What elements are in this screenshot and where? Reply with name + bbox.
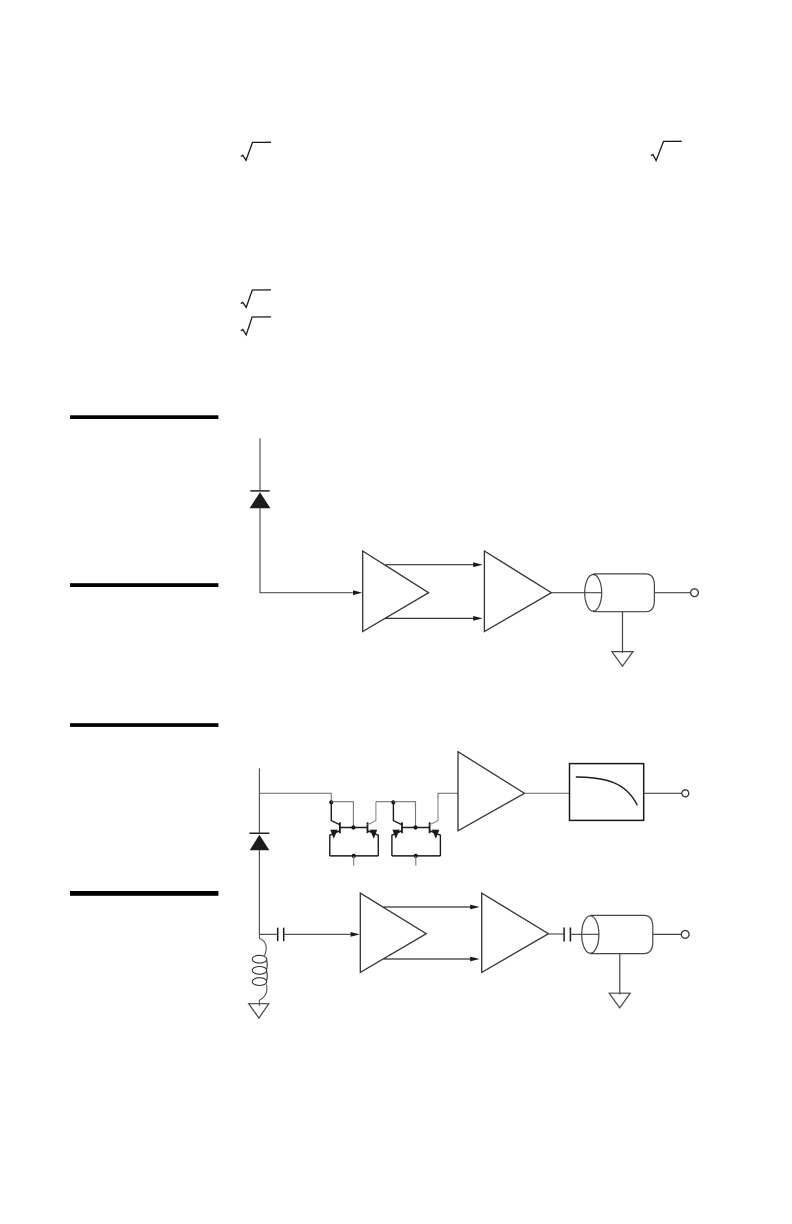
coax connector J2 face ellipse [582,916,599,953]
arrowhead lower into U2 [473,616,482,621]
arrowhead upper into U2 [473,562,482,567]
transistor Q1 emitter [330,831,340,856]
transistor Q3 emitter arrow [392,830,399,839]
emitter rail pair2 [392,855,441,857]
capacitor C2 plate 2 [569,928,571,942]
transistor Q3 emitter [392,831,402,856]
transistor Q3 base bar [401,822,403,833]
output terminal circle 2 [682,790,689,797]
arrowhead into amplifier U1 [353,590,362,595]
wire J2 to output terminal [653,933,682,935]
inductor L1 lead-in arc [259,934,266,955]
capacitor C2 plate 1 [563,928,565,942]
heading bar 1 [70,415,218,419]
transistor Q3 collector [393,803,402,825]
op-amp U2 [484,551,551,632]
node dot pair1 base [351,825,355,829]
wire filter to output terminal [644,792,682,794]
output terminal circle 1 [691,589,699,597]
node dot pair2 tail [414,854,418,858]
wire arrow U1 to U2 (lower) [386,617,474,619]
ground symbol 2 [249,1004,269,1018]
wire pair1 dot to base drop [331,802,353,828]
op-amp U3 [458,752,525,831]
radical sign 3 (mid left equation, upper) [241,290,271,308]
wire J1 to output terminal [654,592,690,594]
radical sign 1 (top left equation) [241,142,271,160]
ground symbol 1 [612,652,633,667]
transistor Q4 base bar [429,822,431,833]
photodiode D2 cathode bar [249,832,269,834]
arrowhead into U4 [351,932,360,937]
wire arrow U1 to U2 (upper) [386,564,474,566]
inductor L1 loop 2 [252,967,266,975]
radical sign 4 (mid left equation, lower) [241,317,271,335]
transistor Q1 collector [331,803,340,825]
inductor L1 loop 1 [252,955,266,963]
wire D2 branch to mirror pair 1 [259,793,331,802]
photodiode D2 triangle [250,835,270,850]
capacitor C1 plate 1 [277,928,279,941]
ground symbol 3 [609,993,630,1008]
transistor Q4 emitter arrow [432,830,439,839]
wire arrow U4 to U5 (upper) [384,906,471,908]
photodiode D1 anode wire [260,508,353,593]
heading bar 2 [70,583,218,587]
output terminal circle 3 [681,931,689,939]
wire J1 to ground [622,612,624,653]
emitter rail pair1 [330,855,379,857]
transistor Q4 emitter [430,831,441,856]
heading bar 3 [70,723,218,727]
arrowhead lower into U5 [470,957,479,962]
capacitor C1 plate 2 [283,928,285,941]
photodiode D2 cathode wire [258,768,260,833]
op-amp U5 [482,893,549,972]
wire U5 to capacitor C2 [549,933,564,935]
coax connector J1 body [593,574,654,612]
op-amp U4 [360,893,426,972]
inductor L1 lead-out arc [259,985,266,1001]
transistor Q2 base bar [367,822,369,833]
tail stub pair1 [353,856,355,866]
wire C2 to connector J2 [570,933,598,935]
low-pass filter box FL1 [570,764,644,821]
wire J2 to ground [619,954,621,995]
wire pair2 dot to base drop [393,802,415,828]
arrowhead upper into U5 [470,905,479,910]
current mirror pair 1 [329,800,378,866]
coax connector J1 face ellipse [585,575,602,612]
wire L1 to ground [258,1000,260,1006]
heading bar 4 [70,891,218,896]
radical sign 2 (top right equation) [651,141,682,160]
inductor L1 spine arc a [266,960,269,969]
base rail pair1 [340,827,368,829]
node dot pair2 top [391,800,395,804]
filter response curve [576,777,638,805]
node dot pair1 tail [352,854,356,858]
photodiode D1 triangle [250,492,271,508]
wire U3 to filter [525,792,570,794]
wire pair1 to pair2 [376,801,394,803]
current mirror pair 2 [391,800,440,866]
wire D2 anode to capacitor C1 [259,933,277,935]
transistor Q2 emitter [368,831,379,856]
wire pair2 to amplifier U3 [438,793,458,801]
photodiode D1 cathode wire [259,438,261,490]
node dot pair2 base [413,825,417,829]
transistor Q2 collector [368,802,376,825]
base rail pair2 [402,827,430,829]
transistor Q1 base bar [339,822,341,833]
transistor Q4 collector [430,802,438,825]
tail stub pair2 [415,856,417,866]
inductor L1 spine arc b [266,971,269,980]
op-amp U1 [363,551,429,632]
inductor L1 loop 3 [252,978,266,986]
wire arrow U4 to U5 (lower) [384,958,471,960]
transistor Q2 emitter arrow [370,830,377,839]
coax connector J2 body [590,915,653,953]
photodiode D2 anode wire down to circuit 3 [258,850,260,934]
photodiode D1 cathode bar [250,490,269,492]
node dot pair1 top [329,800,333,804]
wire U2 output to connector J1 [551,592,601,594]
transistor Q1 emitter arrow [330,830,337,839]
wire C1 to amplifier U4 [284,933,351,935]
